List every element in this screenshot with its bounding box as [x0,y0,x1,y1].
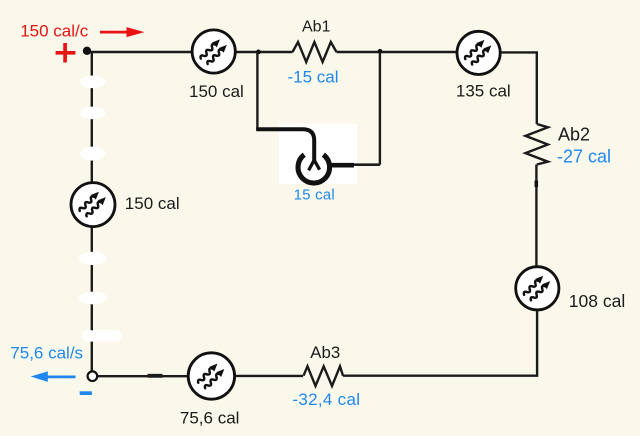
wire Ab2 to source 108 [535,165,537,268]
svg-text:75,6 cal: 75,6 cal [180,408,240,427]
svg-text:150 cal/c: 150 cal/c [20,22,89,41]
wire Ab1 to source 135 [337,51,458,53]
svg-text:150 cal: 150 cal [125,194,180,213]
node junction A [256,50,261,55]
lamp exit thick wire [330,163,354,168]
wire bottom-right corner [343,309,537,376]
wire source 75,6 to output node [97,375,189,377]
wire branch up to B [379,52,381,165]
lamp L1 (15 cal) [298,155,330,183]
heat source U4 75,6 cal [188,353,234,399]
heat source U3 108 cal [516,267,559,310]
svg-text:-27 cal: -27 cal [557,147,611,167]
wire overlap dash [148,374,163,378]
svg-text:75,6 cal/s: 75,6 cal/s [10,344,83,363]
resistor Ab2 [526,124,548,165]
node junction B [378,49,383,54]
node output (open) [88,371,98,381]
wire top-left (node to source) [87,51,193,53]
heat source U1 150 cal top [192,30,235,73]
heat source U5 150 cal left [71,183,115,227]
dashed wire left branch [79,52,122,371]
plus terminal [56,43,76,63]
wire top-right corner [500,52,537,124]
svg-text:150 cal: 150 cal [189,82,244,101]
svg-text:108 cal: 108 cal [569,291,625,311]
wire Ab3 to source 75,6 [236,375,303,377]
resistor Ab3 [304,366,344,386]
wire branch thick horizontal to lamp [256,129,314,160]
svg-text:-32,4 cal: -32,4 cal [292,390,360,409]
svg-text:Ab2: Ab2 [558,125,590,145]
minus terminal [80,391,92,395]
wire overlap splice right [535,181,539,188]
svg-text:Ab1: Ab1 [302,19,331,36]
wire source to Ab1 [235,51,293,53]
heat source U2 135 cal [457,31,500,74]
svg-text:-15 cal: -15 cal [288,68,339,87]
node input (filled) [83,47,91,55]
svg-text:15 cal: 15 cal [294,187,335,203]
svg-text:Ab3: Ab3 [310,343,340,362]
wire branch down from A [256,52,258,130]
resistor Ab1 [293,42,337,62]
svg-text:135 cal: 135 cal [456,82,511,101]
arrow input red [100,27,145,37]
wire lamp to branch vertical [354,163,380,166]
arrow output blue [31,371,76,382]
